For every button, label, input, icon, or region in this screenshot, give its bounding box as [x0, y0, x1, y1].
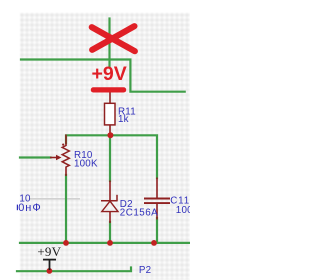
svg-text:P2: P2 [139, 265, 151, 276]
svg-text:100: 100 [176, 205, 190, 216]
svg-text:+9V: +9V [37, 244, 61, 259]
svg-text:100K: 100K [74, 158, 98, 169]
svg-text:0нФ: 0нФ [18, 202, 42, 214]
svg-text:1k: 1k [118, 114, 129, 125]
svg-text:2C156A: 2C156A [120, 207, 158, 218]
svg-text:+9V: +9V [92, 63, 127, 85]
